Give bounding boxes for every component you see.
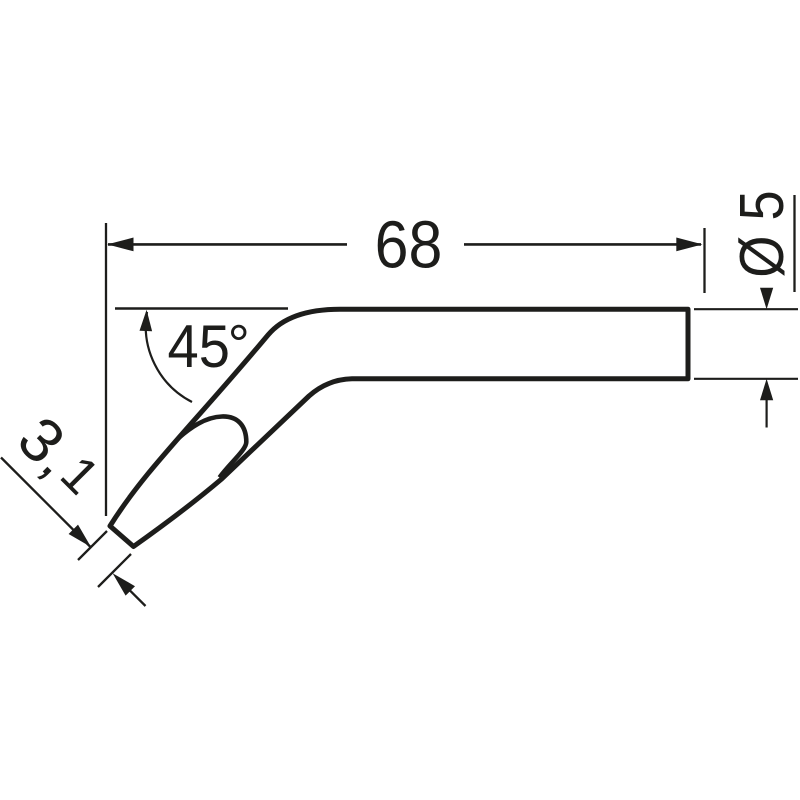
tick through tip upper corner	[78, 531, 107, 560]
tick through tip lower corner	[98, 554, 131, 587]
dimension line 68 right segment	[464, 243, 701, 246]
arrowhead diameter bottom	[760, 379, 773, 400]
dimension line 68 left segment	[108, 243, 347, 246]
svg-text:68: 68	[375, 207, 443, 282]
arrowhead 68 right	[676, 238, 702, 252]
extension line left (tip end, 68 dim)	[105, 223, 107, 516]
extension line right (shaft end, 68 dim)	[703, 228, 705, 293]
arrowhead 68 left	[107, 238, 133, 252]
chisel face (lens curve)	[178, 416, 246, 477]
svg-text:45: 45	[168, 313, 230, 380]
width dim 3,1 dimension line	[1, 458, 91, 548]
arrowhead 3,1 upper (pointing down-right)	[69, 525, 91, 547]
arrowhead 3,1 lower (pointing up-left)	[113, 573, 135, 595]
angle arc arrowhead	[140, 310, 153, 332]
extension line top (diameter dim)	[694, 308, 798, 310]
angle reference line (horizontal arm of 45 deg)	[115, 307, 288, 309]
svg-text:Ø 5: Ø 5	[728, 190, 797, 277]
extension line bottom (diameter dim)	[694, 378, 798, 380]
leader stem below diameter bottom arrow	[765, 399, 767, 428]
angle arc 45 deg	[146, 312, 192, 402]
diameter text side line	[793, 195, 795, 292]
soldering tip body outline	[110, 309, 688, 546]
arrowhead diameter top	[760, 288, 773, 309]
leader stem of 3,1 lower arrow	[129, 590, 146, 606]
